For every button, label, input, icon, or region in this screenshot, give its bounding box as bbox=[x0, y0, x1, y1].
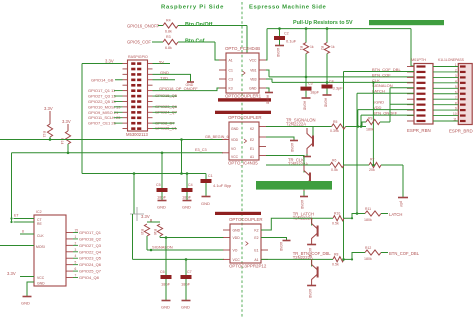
svg-text:15: 15 bbox=[75, 229, 79, 233]
svg-text:0.1uF: 0.1uF bbox=[286, 39, 297, 44]
svg-text:180k: 180k bbox=[364, 218, 372, 222]
svg-text:8: 8 bbox=[22, 230, 24, 234]
svg-text:2: 2 bbox=[75, 241, 77, 245]
svg-text:A1: A1 bbox=[229, 59, 233, 63]
svg-text:E3_C3: E3_C3 bbox=[195, 148, 207, 152]
svg-text:3.3V: 3.3V bbox=[62, 119, 71, 124]
svg-text:E1: E1 bbox=[250, 147, 254, 151]
svg-text:3.3V: 3.3V bbox=[105, 59, 114, 64]
svg-text:6: 6 bbox=[455, 90, 457, 94]
svg-text:3: 3 bbox=[75, 248, 77, 252]
svg-text:VCC: VCC bbox=[37, 276, 45, 280]
svg-text:GND: GND bbox=[201, 201, 210, 206]
svg-text:8: 8 bbox=[455, 101, 457, 105]
svg-text:180k: 180k bbox=[364, 257, 372, 261]
svg-text:9: 9 bbox=[455, 107, 457, 111]
svg-text:SIGNALON: SIGNALON bbox=[152, 245, 173, 250]
svg-text:MOSI: MOSI bbox=[36, 245, 45, 249]
svg-text:0.5k: 0.5k bbox=[332, 263, 339, 267]
svg-text:GPIO17_Q1 11: GPIO17_Q1 11 bbox=[88, 88, 116, 93]
svg-text:18pF: 18pF bbox=[310, 90, 320, 95]
svg-text:A1: A1 bbox=[254, 258, 258, 262]
svg-text:11: 11 bbox=[453, 118, 457, 122]
svg-text:T2N2222A: T2N2222A bbox=[286, 122, 306, 127]
svg-text:OPTO_IC4N35: OPTO_IC4N35 bbox=[228, 160, 258, 165]
svg-text:C6: C6 bbox=[160, 270, 165, 274]
svg-text:GND: GND bbox=[161, 305, 170, 310]
svg-text:SIGNALON: SIGNALON bbox=[372, 83, 393, 88]
svg-text:0.39k: 0.39k bbox=[330, 129, 339, 133]
svg-text:C4: C4 bbox=[188, 183, 193, 187]
svg-text:GPIO22_Q5 15: GPIO22_Q5 15 bbox=[88, 99, 116, 104]
svg-text:GPIO4_Q8: GPIO4_Q8 bbox=[79, 275, 100, 280]
svg-text:R13: R13 bbox=[42, 131, 46, 137]
svg-text:2: 2 bbox=[455, 69, 457, 73]
svg-text:C4: C4 bbox=[329, 80, 334, 84]
svg-text:GPIO5_COF: GPIO5_COF bbox=[127, 40, 151, 45]
svg-text:GPIO18_Q2: GPIO18_Q2 bbox=[79, 236, 102, 241]
svg-text:E2: E2 bbox=[254, 236, 258, 240]
svg-text:R1: R1 bbox=[299, 46, 303, 50]
svg-text:R5: R5 bbox=[333, 120, 337, 124]
svg-text:ET: ET bbox=[14, 214, 19, 218]
svg-text:C5: C5 bbox=[156, 183, 161, 187]
svg-text:10: 10 bbox=[453, 112, 457, 116]
svg-text:R14: R14 bbox=[60, 138, 64, 144]
svg-text:GPIO7_CE1 26: GPIO7_CE1 26 bbox=[88, 121, 117, 126]
svg-text:VDD: VDD bbox=[233, 236, 241, 240]
svg-text:R6: R6 bbox=[332, 159, 336, 163]
svg-text:GND: GND bbox=[157, 205, 166, 210]
svg-text:3: 3 bbox=[455, 74, 457, 78]
svg-text:1: 1 bbox=[455, 63, 457, 67]
svg-text:C3: C3 bbox=[308, 82, 313, 86]
svg-text:AGND: AGND bbox=[279, 242, 283, 252]
svg-text:K2: K2 bbox=[254, 229, 258, 233]
svg-text:C7: C7 bbox=[187, 270, 192, 274]
svg-text:Btn Cof: Btn Cof bbox=[185, 39, 205, 45]
svg-text:OPTOC3PPR2P12: OPTOC3PPR2P12 bbox=[229, 263, 267, 268]
svg-text:R8: R8 bbox=[334, 253, 338, 257]
svg-text:5: 5 bbox=[75, 261, 77, 265]
svg-text:GND: GND bbox=[231, 127, 239, 131]
svg-text:VDD: VDD bbox=[231, 138, 239, 142]
svg-text:CLK: CLK bbox=[372, 78, 380, 83]
svg-text:AGND: AGND bbox=[303, 101, 307, 111]
svg-text:GND: GND bbox=[249, 87, 257, 91]
svg-text:RE: RE bbox=[37, 222, 42, 226]
svg-text:BTN_COF: BTN_COF bbox=[372, 72, 391, 77]
svg-text:pGND: pGND bbox=[373, 100, 384, 105]
svg-text:GND: GND bbox=[181, 305, 190, 310]
svg-text:1k: 1k bbox=[310, 45, 314, 49]
svg-text:7: 7 bbox=[75, 274, 77, 278]
svg-text:C1: C1 bbox=[229, 69, 233, 73]
svg-text:GPIO25_Q7: GPIO25_Q7 bbox=[79, 269, 102, 274]
svg-text:M01PTH: M01PTH bbox=[411, 58, 426, 62]
svg-text:ESPR_RBN: ESPR_RBN bbox=[407, 128, 431, 133]
svg-text:VCC: VCC bbox=[231, 155, 239, 159]
svg-text:GPIO14_GB: GPIO14_GB bbox=[91, 78, 114, 83]
svg-text:C3: C3 bbox=[229, 78, 233, 82]
svg-text:GPIO23_Q5: GPIO23_Q5 bbox=[79, 256, 102, 261]
svg-text:GND: GND bbox=[233, 229, 241, 233]
svg-text:p5V: p5V bbox=[399, 201, 403, 208]
svg-text:E1: E1 bbox=[254, 249, 258, 253]
svg-text:R11: R11 bbox=[365, 207, 371, 211]
svg-text:R7: R7 bbox=[370, 158, 374, 162]
svg-text:AGND: AGND bbox=[308, 289, 312, 299]
svg-text:AGND: AGND bbox=[290, 143, 294, 153]
svg-text:OPTOCOUPLER: OPTOCOUPLER bbox=[229, 217, 263, 222]
svg-text:RASPIGPIO: RASPIGPIO bbox=[128, 55, 148, 59]
svg-text:6: 6 bbox=[75, 267, 77, 271]
svg-text:180k: 180k bbox=[366, 128, 374, 132]
svg-text:VO: VO bbox=[231, 147, 236, 151]
svg-text:20k: 20k bbox=[369, 168, 375, 172]
svg-text:VB3: VB3 bbox=[250, 78, 257, 82]
svg-text:IC2: IC2 bbox=[36, 210, 42, 214]
svg-text:GPIO27_Q3: GPIO27_Q3 bbox=[79, 243, 102, 248]
svg-text:OPTOCOUPLER1: OPTOCOUPLER1 bbox=[225, 93, 262, 98]
svg-text:GPIO27_Q3 13: GPIO27_Q3 13 bbox=[88, 94, 116, 99]
svg-text:3.3V: 3.3V bbox=[141, 214, 150, 219]
svg-text:AGND: AGND bbox=[276, 48, 280, 58]
svg-text:GND: GND bbox=[182, 205, 191, 210]
svg-text:R16: R16 bbox=[153, 229, 157, 235]
svg-text:R9: R9 bbox=[368, 117, 372, 121]
svg-text:T2N2222A: T2N2222A bbox=[288, 162, 308, 167]
svg-text:Raspberry Pi Side: Raspberry Pi Side bbox=[161, 5, 224, 11]
svg-text:VCC: VCC bbox=[249, 59, 257, 63]
svg-text:0.5k: 0.5k bbox=[331, 168, 338, 172]
svg-text:AGND: AGND bbox=[324, 98, 328, 108]
svg-text:C2: C2 bbox=[284, 32, 289, 36]
svg-text:Pull-Up Resistors to 5V: Pull-Up Resistors to 5V bbox=[293, 20, 353, 26]
svg-text:4.1uF Byp: 4.1uF Byp bbox=[213, 183, 232, 188]
svg-text:VCC: VCC bbox=[233, 258, 241, 262]
svg-text:AGND: AGND bbox=[266, 95, 270, 105]
svg-text:Espresso Machine Side: Espresso Machine Side bbox=[249, 5, 327, 11]
svg-text:VB1: VB1 bbox=[250, 69, 257, 73]
svg-text:GB_BEGIN_6: GB_BEGIN_6 bbox=[205, 135, 229, 139]
svg-text:6.8k: 6.8k bbox=[165, 30, 172, 34]
svg-text:7: 7 bbox=[455, 96, 457, 100]
svg-text:R4: R4 bbox=[166, 19, 171, 23]
svg-text:ESPR_BRD: ESPR_BRD bbox=[449, 129, 473, 134]
svg-text:E2: E2 bbox=[250, 138, 254, 142]
svg-text:LATCH: LATCH bbox=[389, 212, 402, 217]
svg-text:3.3V: 3.3V bbox=[44, 106, 53, 111]
svg-text:R3: R3 bbox=[166, 35, 171, 39]
svg-text:GPIO22_Q4: GPIO22_Q4 bbox=[79, 249, 102, 254]
svg-text:4: 4 bbox=[75, 254, 77, 258]
svg-text:Btn On/Off: Btn On/Off bbox=[185, 22, 212, 28]
svg-text:R15: R15 bbox=[140, 229, 144, 235]
svg-text:GPIO24_Q6: GPIO24_Q6 bbox=[79, 262, 102, 267]
svg-text:K2: K2 bbox=[250, 127, 254, 131]
svg-text:OPTO_PC2HD4B: OPTO_PC2HD4B bbox=[225, 46, 260, 51]
svg-text:M53002113: M53002113 bbox=[126, 132, 148, 137]
svg-text:R2: R2 bbox=[320, 46, 324, 50]
svg-text:GPIO17_Q1: GPIO17_Q1 bbox=[79, 230, 102, 235]
svg-text:1: 1 bbox=[75, 235, 77, 239]
svg-text:C1: C1 bbox=[208, 174, 213, 178]
svg-text:3.3pF: 3.3pF bbox=[333, 86, 344, 91]
svg-text:5V: 5V bbox=[159, 59, 164, 64]
svg-text:GND: GND bbox=[37, 282, 45, 286]
svg-text:5: 5 bbox=[455, 85, 457, 89]
svg-text:3.3V: 3.3V bbox=[7, 271, 16, 276]
svg-text:A1: A1 bbox=[250, 155, 254, 159]
svg-text:6.8k: 6.8k bbox=[165, 46, 172, 50]
svg-text:GPIO16_ONOFF: GPIO16_ONOFF bbox=[127, 24, 160, 29]
svg-text:1k: 1k bbox=[331, 45, 335, 49]
svg-text:BTN_COF_DBL: BTN_COF_DBL bbox=[389, 251, 420, 256]
svg-text:GND: GND bbox=[21, 301, 30, 306]
svg-text:CLK: CLK bbox=[37, 234, 44, 238]
svg-text:R12: R12 bbox=[365, 246, 371, 250]
svg-text:VO: VO bbox=[233, 249, 238, 253]
svg-text:K3: K3 bbox=[229, 87, 233, 91]
svg-text:0.5k: 0.5k bbox=[332, 222, 339, 226]
svg-text:R10: R10 bbox=[334, 212, 340, 216]
svg-text:AGND: AGND bbox=[300, 200, 304, 210]
svg-text:OPTOCOUPLER: OPTOCOUPLER bbox=[228, 115, 262, 120]
svg-text:K1L1LONEPASS: K1L1LONEPASS bbox=[438, 58, 465, 62]
svg-text:4: 4 bbox=[455, 79, 457, 83]
